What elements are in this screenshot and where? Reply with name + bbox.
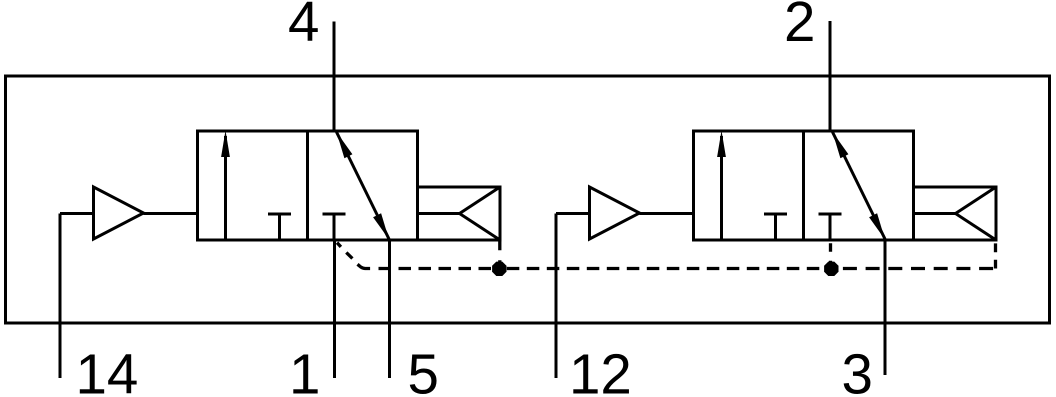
pilot control line dash 3 (corner bend) [358,264,371,268]
pilot control line (dashed) riser to V2 return pilot [994,242,997,269]
valve V2 position divider [802,131,805,240]
wire 14 to pilot triangle V1 [60,212,94,215]
wire port 12 vertical [555,214,558,379]
junction dot A [492,262,506,276]
pilot return triangle V1 [418,212,460,215]
flow path diagonal arrow V2 right box [833,132,886,239]
flow path arrow V1 left box [224,136,227,240]
air pilot return box V2 [914,187,997,240]
flow path diagonal arrow V1 right box [337,132,390,239]
svg-text:12: 12 [569,343,632,397]
wire port 14 vertical [59,214,62,379]
pilot control line (dashed) run B to junction dot B [507,267,824,270]
pilot control line dash 2 [346,253,352,259]
enclosure border [6,76,1050,323]
wire triangle to valve V2 body [640,212,694,215]
pilot control line (dashed) run A to junction dot A [379,267,493,270]
wire 12 to pilot triangle V2 [556,212,590,215]
svg-text:3: 3 [842,343,873,397]
svg-text:1: 1 [289,343,320,397]
svg-text:4: 4 [288,0,319,53]
pilot branch to V1 return pilot (dashed) [498,241,501,268]
pilot triangle V1 (port 14 actuation) [94,187,144,239]
pilot return triangle V2 [914,212,956,215]
pilot control line dash 1 (diagonal from port 1) [337,243,341,247]
port 5 line [388,240,391,378]
valve V1 body [198,131,418,240]
wire triangle to valve V1 body [144,212,198,215]
pilot control line (dashed) run C to V2 pilot corner [843,267,996,270]
svg-text:2: 2 [784,0,815,53]
blocked port T V1 left box [268,213,291,216]
air pilot return box V1 [418,187,501,240]
svg-text:5: 5 [408,343,439,397]
valve V2 body [694,131,914,240]
pilot branch to V2 body (dashed) [829,243,832,268]
flow path arrow V2 left box [720,136,723,240]
port 2 line [829,21,832,131]
blocked port T V2 right box [819,213,842,216]
svg-text:14: 14 [76,343,139,397]
port 1 line [333,240,336,378]
pilot triangle V2 (port 12 actuation) [590,187,640,239]
port 4 line [333,22,336,132]
port 3 line [884,240,887,375]
valve V1 position divider [306,131,309,240]
junction dot B [824,262,838,276]
blocked port T V2 left box [764,213,787,216]
blocked port T V1 right box [323,213,346,216]
